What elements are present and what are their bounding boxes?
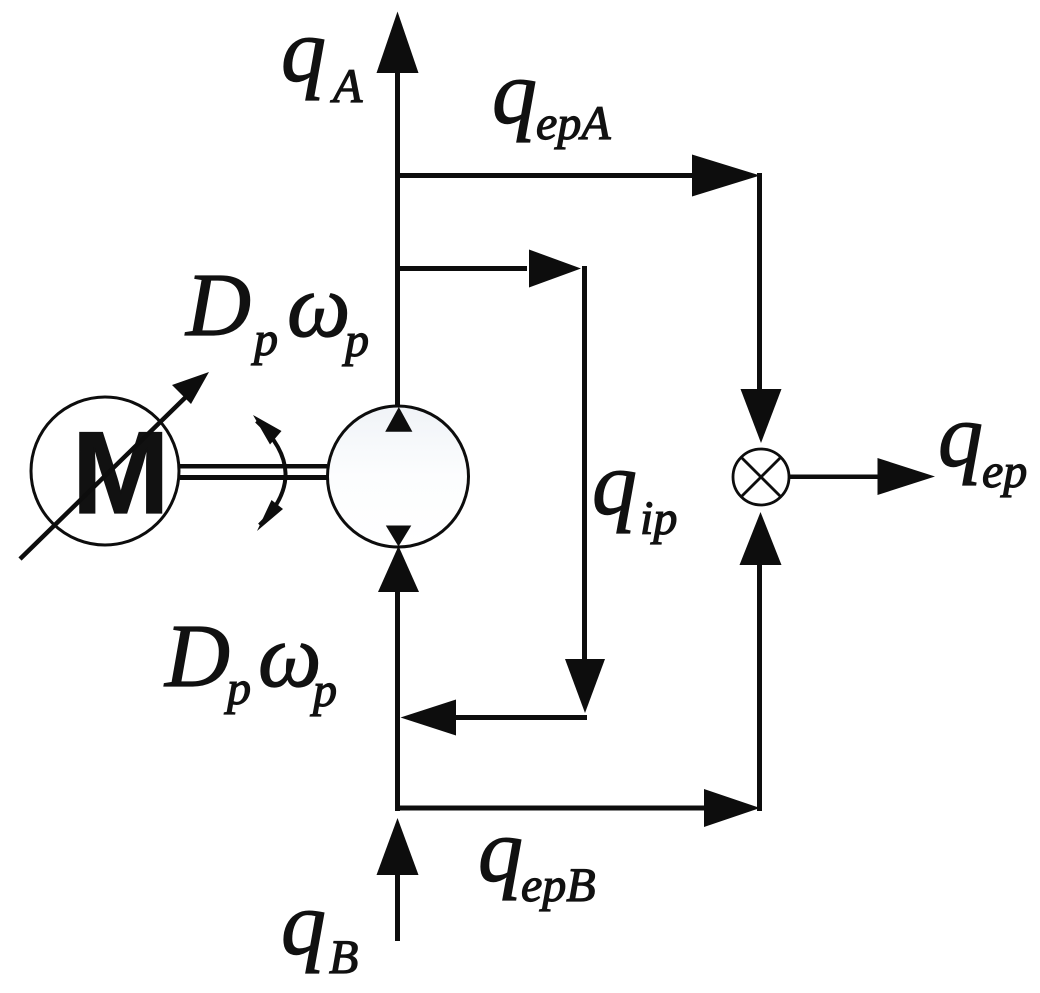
wire: right vertical rise from q_epB corner to summing junction [757,563,762,811]
summing junction: X diagonal 2 [741,457,781,497]
svg-text:epB: epB [521,859,596,912]
svg-text:D: D [184,256,251,355]
arrowhead: q_A up arrow at top of line A [377,12,419,74]
motor M1: diagonal arrowhead [172,372,209,404]
svg-text:ep: ep [982,445,1027,498]
svg-text:D: D [163,607,230,706]
wire: q_epB horizontal branch to right [395,806,705,811]
wire: q_epA horizontal branch from line A to right [395,173,694,178]
motor M1: variable-displacement diagonal arrow shaft line [20,390,193,559]
svg-text:p: p [342,314,369,367]
svg-text:q: q [492,44,537,143]
svg-text:q: q [281,875,326,974]
wire: line B vertical from pump bottom down to q_epB corner [395,590,400,811]
rotation arrow: curved arc over shaft [257,421,286,525]
arrowhead: up arrow entering pump bottom port [378,546,419,592]
svg-text:epA: epA [536,97,611,150]
arrowhead: q_ep output right arrow [878,458,936,495]
arrowhead: up arrow on line B below q_epB corner [377,818,419,875]
svg-text:p: p [224,662,251,715]
svg-text:p: p [310,664,337,717]
summing junction: circle with X [733,449,789,505]
shaft: upper line of double coupling between motor and pump [180,464,327,469]
arrowhead: q_ip right arrow [529,250,581,288]
pump P1: internal top triangle (port A, pointing up) [385,407,412,432]
svg-text:q: q [938,387,983,486]
motor M1: circle [31,397,179,545]
svg-text:ω: ω [287,257,351,356]
svg-text:ω: ω [258,607,322,706]
wire: line B bottom segment (q_B inlet) [395,873,400,941]
wire: main line A vertical (pump top port up) [395,66,400,412]
svg-text:A: A [330,60,363,113]
wire: right vertical drop from q_epA corner to summing junction [757,173,762,391]
svg-text:p: p [251,313,278,366]
rotation arrow: top arrowhead [253,415,282,445]
rotation arrow: bottom arrowhead [257,500,283,531]
wire: q_ip horizontal branch from line A [395,266,527,271]
arrowhead: q_ip down arrow [565,659,605,713]
pump P1: internal bottom triangle (port B, pointing down) [386,526,412,547]
pump P1: circle [328,406,469,547]
svg-text:ip: ip [640,492,677,545]
arrowhead: up arrow into summing junction (from q_epB) [740,512,782,565]
shaft: lower line of double coupling between motor and pump [180,475,327,480]
wire: q_ip return horizontal to line B [455,715,587,720]
svg-text:B: B [329,931,358,984]
svg-text:q: q [281,2,326,101]
wire: q_ip vertical internal-leakage line [582,266,587,661]
arrowhead: q_ip left arrow into line B [401,700,457,736]
summing junction: X diagonal 1 [741,457,781,497]
arrowhead: q_epB right arrow [704,789,760,827]
svg-text:q: q [592,435,637,534]
arrowhead: q_epA right arrow [692,155,760,197]
svg-text:q: q [478,802,523,901]
arrowhead: down arrow into summing junction (from q_epA) [741,389,782,443]
wire: q_ep output horizontal from summing junction [789,475,880,480]
